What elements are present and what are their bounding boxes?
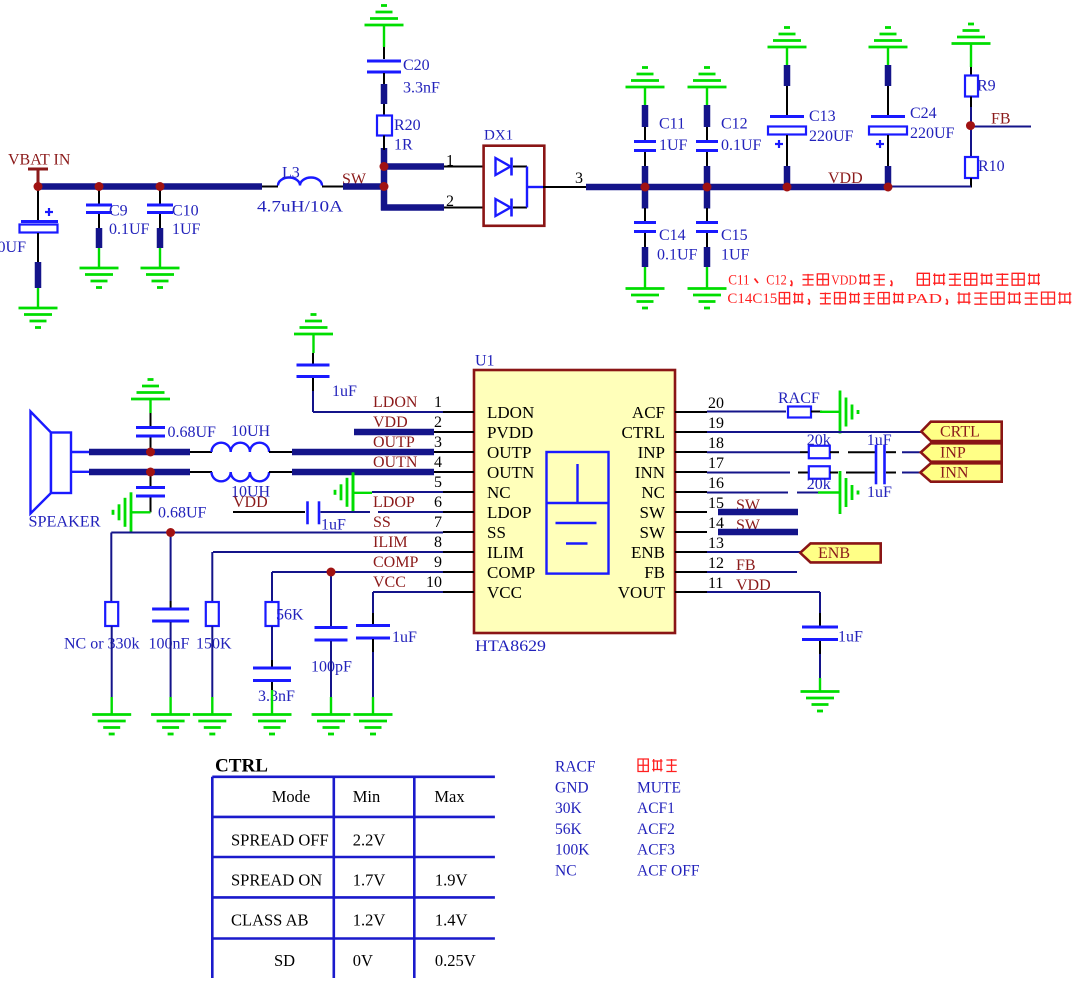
svg-text:FB: FB — [644, 563, 665, 582]
svg-text:19: 19 — [708, 415, 724, 432]
svg-text:CTRL: CTRL — [622, 423, 665, 442]
svg-text:LDOP: LDOP — [373, 494, 415, 511]
svg-text:150K: 150K — [196, 636, 232, 653]
svg-text:1R: 1R — [394, 137, 413, 154]
svg-text:100nF: 100nF — [149, 636, 190, 653]
svg-text:OUTN: OUTN — [373, 454, 418, 471]
svg-text:R9: R9 — [977, 78, 996, 95]
svg-text:2: 2 — [434, 414, 442, 431]
svg-text:3: 3 — [434, 434, 442, 451]
svg-text:SW: SW — [640, 503, 666, 522]
svg-text:PVDD: PVDD — [487, 423, 533, 442]
svg-text:ILIM: ILIM — [487, 543, 524, 562]
svg-text:56K: 56K — [276, 607, 304, 624]
svg-text:1.4V: 1.4V — [435, 911, 468, 930]
svg-text:SPREAD ON: SPREAD ON — [231, 870, 322, 889]
svg-text:9: 9 — [434, 554, 442, 571]
svg-text:10: 10 — [426, 574, 442, 591]
svg-text:ACF2: ACF2 — [637, 821, 675, 838]
svg-text:0.68UF: 0.68UF — [168, 424, 217, 441]
svg-text:COMP: COMP — [487, 563, 535, 582]
svg-text:PAD: PAD — [907, 291, 943, 306]
svg-text:0.1UF: 0.1UF — [721, 137, 762, 154]
svg-text:0V: 0V — [353, 951, 373, 970]
svg-text:0.68UF: 0.68UF — [158, 505, 207, 522]
svg-text:1UF: 1UF — [721, 247, 750, 264]
svg-text:5: 5 — [434, 474, 442, 491]
svg-text:SW: SW — [640, 523, 666, 542]
svg-text:C14: C14 — [659, 227, 686, 244]
svg-text:1uF: 1uF — [392, 629, 417, 646]
svg-text:NC: NC — [487, 483, 511, 502]
svg-text:ILIM: ILIM — [373, 534, 408, 551]
svg-text:OUTP: OUTP — [373, 434, 415, 451]
svg-text:NC: NC — [555, 863, 577, 880]
svg-text:SPEAKER: SPEAKER — [29, 514, 101, 531]
svg-text:DX1: DX1 — [484, 128, 513, 144]
svg-text:16: 16 — [708, 475, 724, 492]
svg-text:1uF: 1uF — [332, 383, 357, 400]
svg-text:SS: SS — [487, 523, 506, 542]
svg-text:C11: C11 — [659, 116, 685, 133]
svg-text:13: 13 — [708, 535, 724, 552]
svg-text:SS: SS — [373, 514, 391, 531]
svg-text:C10: C10 — [172, 203, 199, 220]
svg-text:MUTE: MUTE — [637, 779, 681, 796]
svg-text:FB: FB — [991, 111, 1011, 128]
svg-text:ENB: ENB — [631, 543, 665, 562]
svg-text:4: 4 — [434, 454, 442, 471]
svg-text:INP: INP — [638, 443, 665, 462]
svg-text:VDD: VDD — [831, 272, 857, 287]
svg-text:1UF: 1UF — [172, 221, 201, 238]
svg-text:RACF: RACF — [778, 390, 820, 407]
svg-text:C12: C12 — [721, 116, 748, 133]
svg-text:Mode: Mode — [272, 787, 311, 806]
svg-text:COMP: COMP — [373, 554, 418, 571]
svg-text:SD: SD — [274, 951, 295, 970]
svg-text:VCC: VCC — [373, 574, 406, 591]
svg-text:20k: 20k — [807, 432, 831, 449]
svg-text:17: 17 — [708, 455, 724, 472]
svg-text:C9: C9 — [109, 203, 128, 220]
svg-text:ACF3: ACF3 — [637, 842, 675, 859]
svg-text:HTA8629: HTA8629 — [475, 638, 546, 655]
svg-text:R20: R20 — [394, 117, 421, 134]
svg-text:C20: C20 — [403, 57, 430, 74]
svg-text:ACF OFF: ACF OFF — [637, 863, 700, 880]
svg-text:ACF1: ACF1 — [637, 800, 675, 817]
svg-text:OUTP: OUTP — [487, 443, 531, 462]
svg-text:VBAT IN: VBAT IN — [8, 152, 71, 169]
svg-text:Max: Max — [434, 787, 465, 806]
svg-text:0.1UF: 0.1UF — [109, 221, 150, 238]
svg-text:CRTL: CRTL — [940, 424, 980, 441]
svg-text:GND: GND — [555, 779, 589, 796]
svg-text:RACF: RACF — [555, 759, 596, 776]
svg-text:100K: 100K — [555, 842, 590, 859]
svg-text:OUTN: OUTN — [487, 463, 534, 482]
svg-text:VDD: VDD — [828, 170, 863, 187]
svg-text:VDD: VDD — [233, 494, 268, 511]
svg-text:U1: U1 — [475, 353, 495, 370]
svg-text:1.9V: 1.9V — [435, 870, 468, 889]
svg-text:1uF: 1uF — [867, 432, 892, 449]
svg-text:0.1UF: 0.1UF — [657, 247, 698, 264]
svg-text:LDON: LDON — [373, 394, 418, 411]
svg-text:LDOP: LDOP — [487, 503, 531, 522]
svg-text:1.7V: 1.7V — [353, 870, 386, 889]
svg-text:ENB: ENB — [818, 545, 850, 562]
svg-text:220UF: 220UF — [0, 239, 26, 256]
svg-text:1uF: 1uF — [838, 629, 863, 646]
svg-text:VCC: VCC — [487, 583, 522, 602]
svg-text:C13: C13 — [809, 108, 836, 125]
svg-text:SPREAD OFF: SPREAD OFF — [231, 831, 329, 850]
svg-text:C24: C24 — [910, 105, 937, 122]
svg-text:1uF: 1uF — [321, 517, 346, 534]
svg-text:L3: L3 — [282, 165, 300, 182]
svg-text:1.2V: 1.2V — [353, 911, 386, 930]
svg-text:20: 20 — [708, 395, 724, 412]
svg-text:R10: R10 — [978, 158, 1005, 175]
svg-text:INN: INN — [940, 465, 969, 482]
svg-text:NC: NC — [641, 483, 665, 502]
svg-text:2.2V: 2.2V — [353, 831, 386, 850]
svg-text:VOUT: VOUT — [618, 583, 666, 602]
svg-text:LDON: LDON — [487, 403, 534, 422]
svg-text:3.3nF: 3.3nF — [403, 80, 440, 97]
svg-text:10UH: 10UH — [231, 423, 271, 440]
svg-text:8: 8 — [434, 534, 442, 551]
svg-text:CLASS AB: CLASS AB — [231, 911, 309, 930]
svg-text:4.7uH/10A: 4.7uH/10A — [257, 199, 344, 216]
svg-text:2: 2 — [446, 193, 454, 210]
svg-text:220UF: 220UF — [910, 125, 955, 142]
svg-text:12: 12 — [708, 555, 724, 572]
svg-text:NC or 330k: NC or 330k — [64, 636, 140, 653]
svg-text:VDD: VDD — [373, 414, 408, 431]
svg-text:INP: INP — [940, 445, 966, 462]
svg-text:18: 18 — [708, 435, 724, 452]
svg-text:C11: C11 — [728, 272, 749, 288]
svg-text:220UF: 220UF — [809, 128, 854, 145]
svg-text:C12: C12 — [766, 272, 786, 288]
svg-text:56K: 56K — [555, 821, 583, 838]
svg-text:7: 7 — [434, 514, 442, 531]
svg-text:6: 6 — [434, 494, 442, 511]
svg-text:11: 11 — [708, 575, 723, 592]
svg-text:Min: Min — [353, 787, 381, 806]
svg-text:3: 3 — [575, 170, 583, 187]
svg-text:20k: 20k — [807, 476, 831, 493]
svg-text:0.25V: 0.25V — [435, 951, 476, 970]
svg-text:3.3nF: 3.3nF — [258, 688, 295, 705]
svg-text:CTRL: CTRL — [215, 756, 268, 777]
svg-text:1: 1 — [446, 153, 454, 170]
svg-text:30K: 30K — [555, 800, 583, 817]
svg-text:1: 1 — [434, 394, 442, 411]
svg-text:1uF: 1uF — [867, 484, 892, 501]
svg-text:INN: INN — [635, 463, 665, 482]
svg-text:ACF: ACF — [632, 403, 665, 422]
svg-text:C15: C15 — [721, 227, 748, 244]
svg-text:1UF: 1UF — [659, 137, 688, 154]
svg-text:C14C15: C14C15 — [727, 291, 777, 307]
